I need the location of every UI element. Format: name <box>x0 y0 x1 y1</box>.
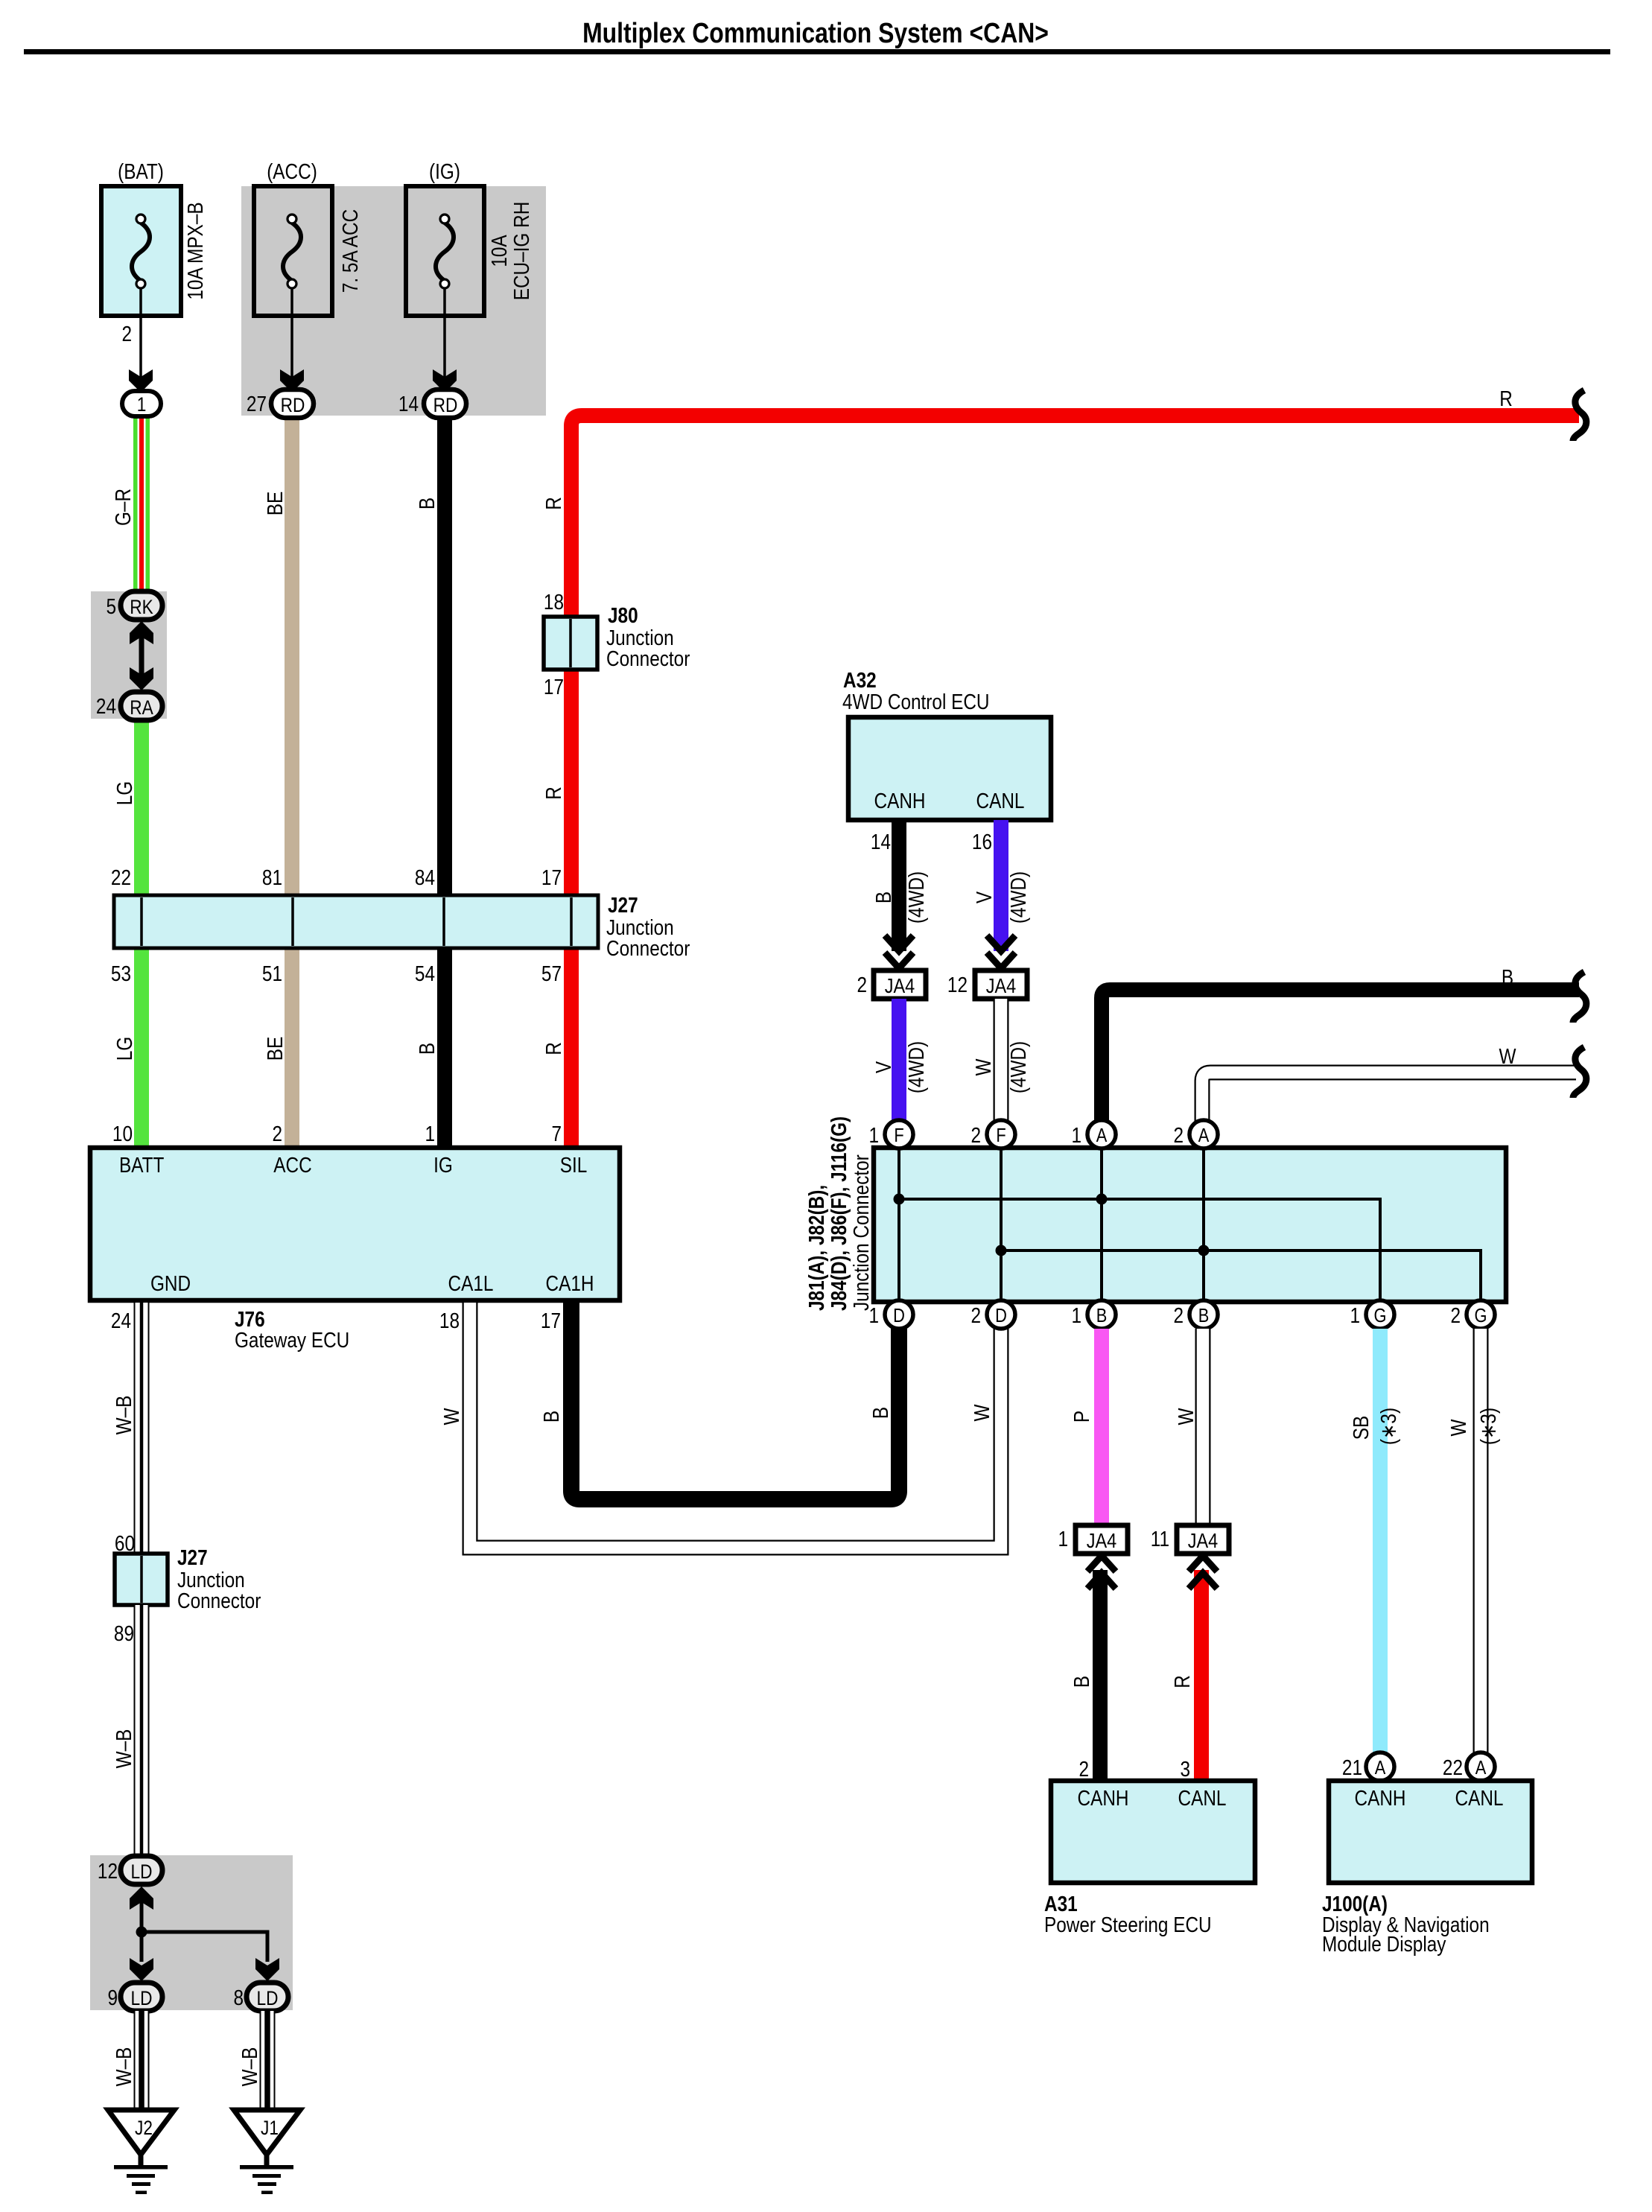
arrow down to LD 8 <box>255 1958 279 1981</box>
wire (LD12 branch vertical) <box>140 1892 144 1962</box>
svg-text:BATT: BATT <box>119 1153 164 1177</box>
arrow into connector RD <box>433 369 457 392</box>
ground J2 <box>108 2110 174 2194</box>
svg-text:2: 2 <box>1078 1757 1089 1781</box>
svg-text:R: R <box>541 1042 565 1055</box>
svg-text:J84(D), J86(F), J116(G): J84(D), J86(F), J116(G) <box>827 1116 851 1311</box>
junction dot <box>894 1194 905 1205</box>
connector oval 1 <box>122 391 161 416</box>
svg-text:JA4: JA4 <box>885 975 915 997</box>
internal link 2F-2D <box>1000 1150 1003 1300</box>
svg-text:SB: SB <box>1349 1416 1373 1440</box>
svg-text:R: R <box>1499 387 1513 410</box>
svg-text:RD: RD <box>433 394 458 416</box>
svg-text:2: 2 <box>857 973 867 997</box>
junction connector J27 strip <box>114 893 690 960</box>
junction node dot <box>136 1927 147 1938</box>
svg-text:1: 1 <box>1071 1123 1081 1147</box>
break symbol (R wire) <box>1573 390 1586 441</box>
svg-text:(4WD): (4WD) <box>1006 1041 1030 1093</box>
svg-text:B: B <box>1096 1305 1108 1326</box>
wire B (CA1H U-route to junction 1D) <box>571 1300 899 1499</box>
fuse 7.5A ACC <box>254 159 362 316</box>
svg-text:84: 84 <box>415 865 435 889</box>
svg-text:11: 11 <box>1151 1527 1169 1551</box>
gray background panel (LD connector area) <box>90 1855 293 2010</box>
connector oval 12 LD <box>98 1856 162 1884</box>
junction dot <box>1198 1245 1210 1256</box>
svg-text:51: 51 <box>262 962 282 985</box>
svg-text:7. 5A ACC: 7. 5A ACC <box>338 209 362 293</box>
svg-text:RK: RK <box>130 596 153 618</box>
wire V (A32 CANL to JA4) <box>994 820 1008 951</box>
svg-text:V: V <box>972 892 996 903</box>
wire G-R (fuse MPX-B to RK) <box>133 414 150 593</box>
svg-text:W: W <box>1446 1419 1470 1437</box>
wire W (junction 2A to right break) <box>1202 1072 1580 1124</box>
svg-text:W–B: W–B <box>112 1396 136 1435</box>
break symbol (B wire) <box>1573 972 1586 1023</box>
break symbol (W wire) <box>1573 1047 1586 1098</box>
svg-text:Junction Connector: Junction Connector <box>849 1154 873 1311</box>
wire B (fuse ECU-IG to J76 IG) <box>437 414 452 1149</box>
svg-text:W: W <box>1174 1408 1198 1426</box>
svg-text:2: 2 <box>272 1122 282 1145</box>
svg-text:7: 7 <box>551 1122 562 1145</box>
svg-text:A: A <box>1096 1125 1108 1146</box>
svg-text:R: R <box>1170 1675 1194 1688</box>
svg-text:RA: RA <box>130 696 153 719</box>
svg-text:8: 8 <box>233 1986 244 2009</box>
connector oval RD <box>424 390 466 418</box>
svg-text:17: 17 <box>541 865 562 889</box>
wire W-B (LD9 to ground J2) <box>134 2011 150 2112</box>
svg-text:53: 53 <box>111 962 131 985</box>
svg-text:RD: RD <box>281 394 305 416</box>
internal bus to 2G <box>1001 1250 1481 1300</box>
svg-text:2: 2 <box>121 322 132 346</box>
svg-text:J80: J80 <box>608 603 638 627</box>
svg-text:Connector: Connector <box>177 1589 261 1612</box>
svg-text:2: 2 <box>1450 1303 1461 1327</box>
svg-text:LD: LD <box>257 1987 279 2009</box>
svg-text:(4WD): (4WD) <box>1006 871 1030 924</box>
wire V (JA4 to junction 1F) <box>892 999 906 1122</box>
connector oval 24 RA <box>96 692 162 720</box>
wire (fuse BAT to connector 1) <box>139 289 142 387</box>
J27 cell divider (pin 81/51) <box>291 897 294 946</box>
svg-text:SIL: SIL <box>560 1153 588 1177</box>
svg-text:B: B <box>1502 965 1513 989</box>
svg-text:57: 57 <box>541 962 562 985</box>
wire R (SIL horizontal to right break) <box>571 416 1579 1149</box>
svg-text:27: 27 <box>247 392 267 416</box>
wire W (junction 2G to J100) <box>1473 1329 1489 1753</box>
svg-text:2: 2 <box>970 1303 981 1327</box>
svg-text:A: A <box>1475 1757 1487 1779</box>
JA4 connector (pin 1) <box>1058 1525 1128 1554</box>
svg-text:16: 16 <box>972 830 992 854</box>
svg-text:4WD Control ECU: 4WD Control ECU <box>842 690 990 714</box>
svg-text:14: 14 <box>398 392 419 416</box>
arrow into connector 1 <box>129 369 153 392</box>
wire (fuse IG to connector RD) <box>443 289 446 387</box>
wire LG (RA to J27) <box>134 715 149 897</box>
svg-text:5: 5 <box>106 594 116 618</box>
wire W (junction 2B to JA4) <box>1195 1329 1211 1527</box>
internal bus to 1G <box>899 1199 1380 1300</box>
svg-text:22: 22 <box>1443 1755 1463 1779</box>
svg-text:2: 2 <box>970 1123 981 1147</box>
svg-text:A: A <box>1198 1125 1210 1146</box>
svg-text:W: W <box>971 1058 995 1076</box>
J27 cell divider (pin 17/57) <box>570 897 573 946</box>
svg-text:CANL: CANL <box>976 789 1025 813</box>
internal link 1F-1D <box>898 1150 900 1300</box>
svg-text:14: 14 <box>871 830 891 854</box>
svg-text:CANH: CANH <box>874 789 926 813</box>
svg-text:3: 3 <box>1180 1757 1190 1781</box>
junction dot <box>996 1245 1007 1256</box>
svg-text:W–B: W–B <box>112 2047 136 2087</box>
svg-text:(∗3): (∗3) <box>1376 1408 1400 1445</box>
arrow up to LD 12 <box>130 1887 153 1910</box>
svg-text:GND: GND <box>150 1271 191 1295</box>
svg-text:J27: J27 <box>608 893 638 917</box>
junction connector J81/J82/J84/J86/J116 label <box>804 1116 873 1311</box>
arrow down to LD 9 <box>130 1958 153 1981</box>
wire B (JA4 to A31 CANH) <box>1093 1570 1108 1781</box>
wire SB (junction 1G to J100) <box>1373 1329 1388 1753</box>
svg-text:21: 21 <box>1342 1755 1362 1779</box>
J27 cell divider (pin 60/89) <box>140 1556 143 1603</box>
svg-text:24: 24 <box>96 694 116 718</box>
svg-text:1: 1 <box>1350 1303 1360 1327</box>
svg-text:1: 1 <box>868 1123 879 1147</box>
svg-text:J1: J1 <box>261 2117 279 2139</box>
svg-text:R: R <box>541 497 565 510</box>
svg-text:1: 1 <box>425 1122 435 1145</box>
svg-text:W: W <box>1499 1044 1517 1068</box>
svg-text:A32: A32 <box>843 668 877 692</box>
svg-text:CANH: CANH <box>1355 1786 1406 1810</box>
JA4 connector (pin 11) <box>1151 1525 1229 1554</box>
wire W (CA1L U-route to junction 2D) <box>470 1300 1001 1548</box>
svg-text:CA1H: CA1H <box>546 1271 594 1295</box>
svg-text:P: P <box>1070 1411 1093 1423</box>
junction connector box <box>874 1148 1506 1302</box>
svg-text:B: B <box>415 498 439 509</box>
double arrow between RK and RA <box>130 621 153 690</box>
svg-text:B: B <box>871 892 895 903</box>
J27 cell divider (pin 22/53) <box>140 897 143 946</box>
wire BE (fuse ACC to J76 ACC) <box>285 414 299 1149</box>
svg-text:B: B <box>539 1411 563 1423</box>
svg-text:1: 1 <box>137 393 147 416</box>
display and navigation module J100(A) <box>1322 1781 1532 1956</box>
svg-text:(4WD): (4WD) <box>904 1041 928 1093</box>
svg-text:12: 12 <box>98 1859 118 1883</box>
svg-text:JA4: JA4 <box>1087 1530 1117 1552</box>
connector oval 5 RK <box>106 591 162 620</box>
wire W (JA4 to junction 2F) <box>994 999 1009 1122</box>
power steering ECU A31 <box>1044 1781 1255 1936</box>
svg-text:B: B <box>868 1407 892 1419</box>
svg-text:18: 18 <box>439 1309 460 1332</box>
wire W-B (LD8 to ground J1) <box>260 2011 276 2112</box>
svg-text:Power Steering ECU: Power Steering ECU <box>1044 1913 1212 1936</box>
svg-text:10: 10 <box>112 1122 133 1145</box>
svg-text:J27: J27 <box>177 1545 208 1569</box>
wire (fuse ACC to connector RD) <box>290 289 293 387</box>
svg-text:1: 1 <box>1058 1527 1068 1551</box>
svg-text:(ACC): (ACC) <box>267 159 317 183</box>
wire P (junction 1B to JA4) <box>1094 1329 1109 1526</box>
double arrow out of JA4 (pin 11) <box>1189 1556 1217 1589</box>
svg-text:22: 22 <box>111 865 131 889</box>
svg-text:ECU–IG RH: ECU–IG RH <box>509 202 533 301</box>
svg-text:1: 1 <box>1071 1303 1081 1327</box>
J80 cell divider <box>569 619 572 667</box>
svg-text:81: 81 <box>262 865 282 889</box>
JA4 connector (pin 12) <box>947 970 1027 999</box>
svg-text:LG: LG <box>112 1037 136 1061</box>
svg-text:(IG): (IG) <box>429 159 460 183</box>
svg-text:IG: IG <box>433 1153 453 1177</box>
svg-text:(BAT): (BAT) <box>118 159 164 183</box>
ground J1 <box>234 2110 300 2194</box>
svg-text:J2: J2 <box>135 2117 153 2139</box>
svg-text:J81(A), J82(B),: J81(A), J82(B), <box>804 1185 828 1311</box>
title underline rule <box>24 49 1610 54</box>
svg-text:JA4: JA4 <box>986 975 1017 997</box>
svg-text:CANL: CANL <box>1455 1786 1504 1810</box>
gateway ECU J76 <box>90 1148 620 1300</box>
svg-text:1: 1 <box>868 1303 879 1327</box>
svg-text:R: R <box>541 786 565 800</box>
svg-text:54: 54 <box>415 962 435 985</box>
fuse 10A ECU-IG RH (IG) <box>406 159 533 316</box>
svg-text:A: A <box>1375 1757 1386 1779</box>
wire W-B (GND to J27) <box>134 1299 150 1555</box>
svg-text:10A MPX–B: 10A MPX–B <box>183 202 207 299</box>
svg-text:17: 17 <box>541 1309 561 1332</box>
J27 cell divider (pin 84/54) <box>442 897 445 946</box>
svg-text:(∗3): (∗3) <box>1476 1408 1500 1445</box>
svg-text:B: B <box>1198 1305 1210 1326</box>
svg-text:W: W <box>439 1408 463 1426</box>
connector oval RD <box>271 390 314 418</box>
JA4 connector (pin 2) <box>857 970 926 999</box>
svg-text:10A: 10A <box>487 235 511 267</box>
svg-text:18: 18 <box>544 590 564 614</box>
wire W-B (J27 to LD 12) <box>134 1605 150 1858</box>
svg-text:17: 17 <box>544 675 564 699</box>
svg-text:G: G <box>1374 1305 1387 1326</box>
fuse 10A MPX-B (BAT) <box>101 159 207 316</box>
double arrow out of JA4 (pin 1) <box>1087 1556 1116 1589</box>
svg-text:24: 24 <box>111 1309 131 1332</box>
svg-text:LD: LD <box>131 1987 153 2009</box>
svg-text:LD: LD <box>131 1860 153 1883</box>
wire (branch to LD 8) <box>142 1932 267 1962</box>
junction dot <box>1096 1194 1108 1205</box>
double arrow into JA4 (pin 2) <box>885 935 913 968</box>
svg-text:Connector: Connector <box>606 646 690 670</box>
svg-text:Gateway ECU: Gateway ECU <box>235 1328 349 1352</box>
svg-text:89: 89 <box>114 1621 134 1645</box>
svg-text:Multiplex Communication System: Multiplex Communication System <CAN> <box>582 17 1049 48</box>
svg-text:9: 9 <box>107 1986 118 2009</box>
svg-text:V: V <box>871 1061 895 1073</box>
svg-text:W–B: W–B <box>238 2047 261 2087</box>
svg-text:F: F <box>996 1125 1006 1146</box>
svg-text:BE: BE <box>263 1037 287 1061</box>
svg-text:Connector: Connector <box>606 936 690 960</box>
svg-text:CANH: CANH <box>1078 1786 1129 1810</box>
gray background panel (ACC/IG fuse area) <box>241 186 546 416</box>
svg-text:LG: LG <box>112 781 136 805</box>
svg-text:B: B <box>415 1043 439 1055</box>
wire R (JA4 to A31 CANL) <box>1194 1570 1209 1781</box>
svg-text:ACC: ACC <box>273 1153 311 1177</box>
svg-text:G: G <box>1475 1305 1487 1326</box>
4WD control ECU A32 <box>842 668 1051 820</box>
gray background panel (RK/RA connector area) <box>91 591 167 719</box>
svg-text:2: 2 <box>1173 1123 1184 1147</box>
svg-text:BE: BE <box>263 492 287 515</box>
svg-text:(4WD): (4WD) <box>904 871 928 924</box>
arrow into connector RD <box>280 369 304 392</box>
internal link 2A-2B <box>1202 1150 1205 1300</box>
svg-text:D: D <box>893 1305 905 1326</box>
svg-text:W–B: W–B <box>112 1729 136 1769</box>
svg-text:G–R: G–R <box>111 489 135 526</box>
connector oval 8 LD <box>233 1983 288 2011</box>
svg-text:Module Display: Module Display <box>1322 1932 1446 1956</box>
svg-text:JA4: JA4 <box>1188 1530 1219 1552</box>
svg-text:D: D <box>995 1305 1007 1326</box>
junction connector J27 (lower small) <box>115 1545 261 1612</box>
wire LG (J27 to J76 BATT) <box>134 946 149 1149</box>
connector oval 9 LD <box>107 1983 162 2011</box>
wire B (A32 CANH to JA4) <box>892 820 906 951</box>
wire B (junction 1A to right break) <box>1102 990 1579 1122</box>
junction connector J80 <box>544 590 690 699</box>
svg-text:B: B <box>1070 1676 1093 1688</box>
svg-text:CA1L: CA1L <box>448 1271 494 1295</box>
double arrow into JA4 (pin 12) <box>987 935 1015 968</box>
internal link 1A-1B <box>1100 1150 1103 1300</box>
svg-text:F: F <box>894 1125 903 1146</box>
svg-text:2: 2 <box>1173 1303 1184 1327</box>
svg-text:W: W <box>970 1404 994 1422</box>
svg-text:12: 12 <box>947 973 968 997</box>
svg-text:CANL: CANL <box>1178 1786 1227 1810</box>
